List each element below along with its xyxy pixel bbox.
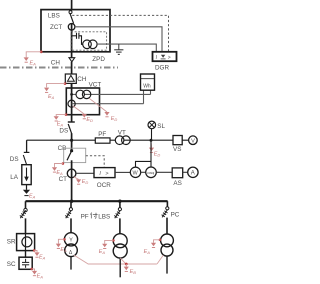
ground E_A at branch3 transformer (112, 239, 115, 242)
svg-text:Wh: Wh (143, 83, 151, 89)
boundary dash-dot line (0, 67, 118, 69)
wire main feeder top (71, 0, 73, 11)
cable head CH box (65, 74, 76, 83)
capacitor SC (19, 257, 32, 269)
node red E_B junction (125, 263, 128, 266)
svg-text:CT: CT (59, 176, 68, 183)
svg-text:LBS: LBS (48, 13, 60, 20)
capacitor ZPD coupling (72, 35, 77, 37)
node branch3 tap (119, 201, 121, 208)
meter Wh (141, 74, 155, 90)
svg-text:SR: SR (7, 238, 16, 245)
svg-text:EB: EB (130, 269, 137, 275)
meter W (130, 167, 140, 177)
wire CH to VCT (71, 62, 73, 88)
dashed trip line LBS to DGR (72, 15, 168, 51)
wire branch horizontal (27, 139, 189, 141)
ground E_D at CT (74, 177, 79, 180)
svg-text:SC: SC (7, 261, 16, 268)
svg-text:CH: CH (77, 76, 87, 83)
wire red to bus (120, 258, 125, 264)
fuse cutout branch1 (20, 210, 26, 218)
ct CT (67, 169, 76, 178)
ground E_B (125, 264, 127, 267)
wire CT to OCR (76, 172, 94, 174)
meter A (188, 167, 198, 177)
wire W to cos (141, 171, 146, 173)
switch LBS (69, 11, 72, 14)
svg-text:EA: EA (39, 255, 46, 261)
meter cos phi (146, 167, 157, 178)
wire LA branch drop (26, 140, 28, 152)
node branch1 tap (24, 208, 27, 211)
ground at ZPD secondary (118, 44, 120, 50)
node VT secondary junction (150, 139, 153, 142)
ground E_A at CB (62, 162, 65, 165)
svg-text:Y: Y (69, 237, 73, 243)
ground E_A at branch4 transformer (159, 239, 162, 242)
svg-text:CH: CH (51, 60, 61, 67)
relay OCR (94, 168, 115, 178)
wire CB to CT (71, 160, 73, 201)
svg-text:V: V (191, 138, 195, 144)
ground E_A at branch2 transformer (63, 238, 66, 241)
dashed trip line OCR to CB (86, 156, 105, 168)
ground E_A at SR (33, 249, 36, 252)
svg-text:AS: AS (173, 180, 181, 187)
svg-text:SL: SL (157, 123, 165, 130)
switch DS for LA (24, 151, 30, 153)
fuse LBS with PF branch2 (65, 210, 71, 218)
node branch junction (70, 139, 73, 142)
svg-text:EA: EA (37, 273, 44, 279)
wire main through VCT (71, 83, 73, 122)
svg-text:ED: ED (86, 117, 93, 123)
transformer VT in VCT (68, 100, 75, 107)
transformer Y-D branch2 (64, 233, 77, 246)
fuse LBS branch3 (114, 210, 120, 218)
svg-text:W: W (133, 171, 139, 177)
svg-text:VT: VT (118, 129, 126, 136)
transformer branch4 (161, 234, 174, 247)
wire VT secondary in VCT (72, 103, 144, 105)
wire branch1 drop (25, 201, 27, 208)
svg-text:VCT: VCT (89, 82, 102, 89)
vct VCT box (66, 88, 99, 115)
svg-text:CB: CB (58, 145, 67, 152)
svg-text:>: > (105, 171, 108, 177)
ground E_A at SC (30, 268, 33, 271)
svg-text:ZPD: ZPD (92, 56, 105, 63)
wire SR to SC (25, 251, 27, 258)
ground at LA (26, 185, 28, 190)
ground E_D at VT (73, 106, 84, 114)
node branch4 tap (166, 207, 169, 210)
reactor SR (17, 234, 35, 251)
wire DS to junction (71, 133, 73, 151)
wire LBS to ZPD (71, 23, 73, 57)
svg-text:DGR: DGR (155, 65, 169, 72)
switch DS main (68, 121, 75, 123)
svg-text:ED: ED (111, 116, 118, 122)
fuse PC branch4 (162, 210, 168, 218)
svg-text:ED: ED (82, 179, 89, 185)
wire branch3 secondary (119, 258, 121, 277)
svg-text:PF: PF (81, 213, 89, 220)
svg-text:EA: EA (29, 194, 36, 200)
wire OCR to W (115, 171, 130, 173)
node branch2 tap (70, 201, 72, 208)
svg-text:cosφ: cosφ (147, 171, 154, 175)
svg-text:PC: PC (171, 212, 180, 219)
fuse PF (95, 138, 110, 143)
svg-text:>: > (168, 55, 171, 61)
transformer branch3 (113, 234, 127, 248)
wire branch2 secondary (70, 257, 72, 270)
svg-text:EA: EA (144, 249, 151, 255)
cubicle box (41, 10, 110, 52)
transformer ZPD (83, 40, 92, 49)
switch VS (173, 136, 182, 145)
svg-text:LA: LA (10, 174, 19, 181)
svg-text:DS: DS (10, 156, 19, 163)
ground E_D at CT secondary (89, 98, 107, 112)
wire to Wh meter (150, 90, 152, 94)
cable head CH arrow (69, 58, 75, 62)
svg-text:DS: DS (59, 127, 68, 134)
wire CT branch in VCT (72, 93, 151, 95)
svg-text:EA: EA (60, 247, 67, 253)
svg-text:ZCT: ZCT (50, 24, 62, 31)
wire branch4 drop (166, 201, 168, 207)
arrester LA (22, 165, 31, 185)
wire branch4 secondary (166, 256, 168, 274)
wire red B-ground link (74, 255, 157, 264)
wire meter link (136, 140, 152, 167)
switch AS (172, 168, 183, 178)
zct ZCT (68, 24, 75, 31)
svg-text:PF: PF (98, 131, 106, 138)
wire ZCT to DGR (75, 27, 162, 52)
wire ZPD to DGR (97, 44, 156, 52)
svg-text:LBS: LBS (98, 213, 110, 220)
relay DGR (153, 52, 177, 61)
wire red to bus (157, 255, 163, 264)
bus (26, 200, 168, 202)
ground E_A at cubicle (40, 50, 43, 53)
wire AS to A (183, 171, 188, 173)
svg-text:VS: VS (173, 146, 181, 153)
svg-text:EA: EA (30, 61, 37, 67)
svg-text:EA: EA (99, 249, 106, 255)
ground E_D at VT secondary (150, 142, 153, 148)
wire cos to AS (156, 171, 172, 173)
vt VT (115, 136, 124, 145)
transformer CT in VCT (76, 90, 84, 98)
svg-text:ED: ED (154, 152, 161, 158)
svg-text:A: A (191, 171, 195, 177)
svg-text:OCR: OCR (97, 182, 111, 189)
ground E_A at VCT (65, 113, 68, 116)
ground E_A at CH (64, 82, 67, 85)
zpd dashed box (71, 32, 107, 50)
lamp SL (151, 129, 153, 141)
meter V (189, 136, 198, 145)
svg-text:EA: EA (48, 94, 55, 100)
